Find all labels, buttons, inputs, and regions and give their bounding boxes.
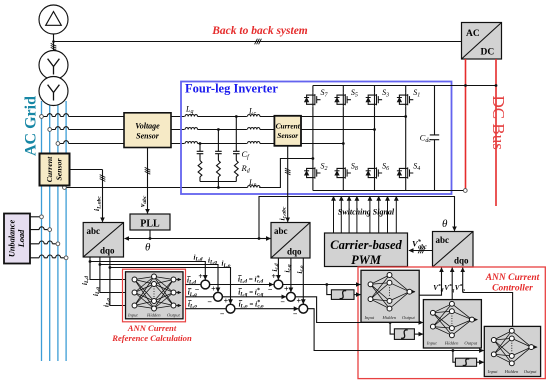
svg-text:Sensor: Sensor <box>277 131 298 140</box>
svg-text:−: − <box>195 285 200 294</box>
svg-text:−: − <box>207 298 212 307</box>
svg-text:abc: abc <box>436 235 450 245</box>
svg-text:dqo: dqo <box>454 256 469 266</box>
svg-text:+: + <box>211 285 216 294</box>
svg-text:Input: Input <box>127 313 138 318</box>
svg-text:DC: DC <box>481 48 495 58</box>
svg-text:Load: Load <box>17 229 26 248</box>
svg-text:Output: Output <box>524 369 537 374</box>
svg-text:Input: Input <box>426 341 437 346</box>
svg-text:+: + <box>224 296 229 305</box>
svg-text:Back to back system: Back to back system <box>211 25 308 37</box>
svg-text:Sensor: Sensor <box>55 157 64 180</box>
svg-text:Sensor: Sensor <box>136 132 160 141</box>
svg-text:Output: Output <box>464 341 477 346</box>
svg-text:ANN Current: ANN Current <box>485 273 540 283</box>
svg-text:Switching Signal: Switching Signal <box>338 208 395 217</box>
svg-text:−: − <box>268 285 273 294</box>
svg-text:Hidden: Hidden <box>382 315 397 320</box>
svg-text:−: − <box>293 309 298 318</box>
svg-text:Hidden: Hidden <box>504 369 519 374</box>
svg-text:AC: AC <box>466 29 480 39</box>
svg-text:+: + <box>272 272 277 281</box>
svg-text:θ: θ <box>442 218 448 230</box>
svg-text:Four-leg Inverter: Four-leg Inverter <box>185 82 278 96</box>
svg-text:Current: Current <box>276 122 301 131</box>
svg-text:Reference Calculation: Reference Calculation <box>111 333 192 343</box>
svg-text:Carrier-based: Carrier-based <box>330 238 402 252</box>
svg-text:ANN Current: ANN Current <box>127 323 177 333</box>
svg-text:dqo: dqo <box>100 246 115 256</box>
svg-text:θ: θ <box>145 242 151 254</box>
svg-text:−: − <box>220 309 225 318</box>
svg-text:Output: Output <box>167 313 180 318</box>
svg-text:−: − <box>280 298 285 307</box>
svg-text:abc: abc <box>274 226 288 236</box>
svg-text:Voltage: Voltage <box>135 122 160 131</box>
svg-text:Current: Current <box>45 156 54 182</box>
svg-text:PWM: PWM <box>351 253 382 267</box>
svg-text:Input: Input <box>364 315 375 320</box>
svg-text:PLL: PLL <box>140 219 160 230</box>
svg-text:Hidden: Hidden <box>444 341 459 346</box>
svg-text:+: + <box>297 296 302 305</box>
svg-text:Unbalance: Unbalance <box>8 220 17 258</box>
svg-text:DC Bus: DC Bus <box>489 96 508 150</box>
svg-text:Input: Input <box>487 369 498 374</box>
svg-text:+: + <box>284 285 289 294</box>
svg-text:Output: Output <box>402 315 415 320</box>
svg-text:abc: abc <box>87 226 101 236</box>
svg-text:dqo: dqo <box>287 247 302 257</box>
svg-text:AC Grid: AC Grid <box>23 96 40 156</box>
svg-text:+: + <box>198 272 203 281</box>
svg-text:Hidden: Hidden <box>146 313 161 318</box>
